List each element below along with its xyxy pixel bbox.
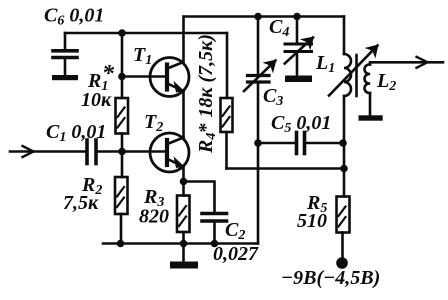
svg-text:7,5к: 7,5к (63, 192, 99, 214)
svg-text:T2: T2 (144, 111, 163, 135)
junction C5 left / C3 branch (254, 139, 262, 147)
junction C1 / R1 / R2 / T2 base (118, 148, 126, 156)
capacitor C2 (202, 214, 227, 244)
junction rail / R1 top (118, 29, 126, 37)
svg-text:C3: C3 (263, 85, 283, 109)
junction R3 bottom / ground rail (180, 240, 188, 248)
capacitor C1 (87, 140, 166, 164)
svg-text:10к: 10к (81, 89, 112, 111)
svg-text:L1: L1 (315, 52, 335, 76)
supply terminal (336, 257, 348, 269)
wire second rail (C6 / R1 / R4 top) (65, 32, 227, 35)
wire T2 emitter down (182, 167, 185, 182)
resistor R4 (221, 33, 233, 169)
ground (L2) (359, 115, 383, 120)
junction T2 emitter / R3 / C2 (180, 178, 188, 186)
svg-text:L2: L2 (376, 70, 396, 94)
tuning arrow L1/L2 (329, 46, 378, 96)
inductor L1 (344, 17, 351, 169)
svg-text:C6 0,01: C6 0,01 (44, 5, 104, 29)
resistor R5 (337, 169, 350, 258)
svg-text:C4: C4 (269, 16, 289, 40)
svg-text:C5 0,01: C5 0,01 (271, 112, 331, 136)
resistor R1 (116, 98, 129, 152)
capacitor C6 (53, 33, 77, 75)
wire R1 branch vertical (121, 33, 124, 98)
svg-text:820: 820 (139, 206, 169, 228)
inductor L2 (365, 62, 443, 115)
wire T1 emitter to T2 collector (182, 91, 185, 137)
junction mid rail / L1 / R5 (340, 165, 348, 173)
svg-text:C2: C2 (225, 219, 245, 243)
resistor R3 (177, 182, 190, 244)
wire top rail (collector T1 to tank) (184, 15, 344, 18)
svg-text:R4* 18к (7,5к): R4* 18к (7,5к) (195, 34, 219, 154)
junction C3 / top rail (254, 13, 262, 21)
svg-text:C1 0,01: C1 0,01 (46, 121, 106, 145)
wire T1 base (122, 75, 165, 78)
svg-text:*: * (102, 61, 115, 87)
ground (R3) (182, 244, 185, 262)
capacitor C4 (variable) (285, 17, 317, 76)
svg-text:0,027: 0,027 (213, 243, 259, 265)
junction R2 bottom / ground rail (117, 240, 125, 248)
wire middle rail (R4 bottom to L1/R5) (227, 167, 345, 170)
wire input line (10, 150, 87, 153)
svg-text:−9В(−4,5В): −9В(−4,5В) (281, 267, 380, 289)
capacitor C5 (258, 133, 343, 154)
core line L1/L2 (355, 55, 358, 96)
transistor T1 (150, 17, 189, 97)
input arrow (23, 146, 34, 157)
output arrow (417, 57, 428, 68)
ground (C6) (52, 75, 78, 80)
junction C4 / top rail (293, 13, 301, 21)
junction C5 right / L1 branch (339, 139, 347, 147)
wire emitter node to C2 (184, 182, 215, 212)
svg-text:510: 510 (297, 210, 327, 232)
svg-text:T1: T1 (133, 44, 152, 68)
wire C3/C5 branch lower vertical (257, 84, 260, 244)
ground (C4) (285, 76, 312, 83)
junction C2 bottom / ground rail (211, 240, 219, 248)
junction R1 / T1 base (118, 73, 126, 81)
transistor T2 (150, 133, 189, 172)
resistor R2 (115, 152, 128, 244)
wire bottom (emitter ground) rail (103, 242, 258, 245)
capacitor C3 (variable) (244, 17, 279, 92)
